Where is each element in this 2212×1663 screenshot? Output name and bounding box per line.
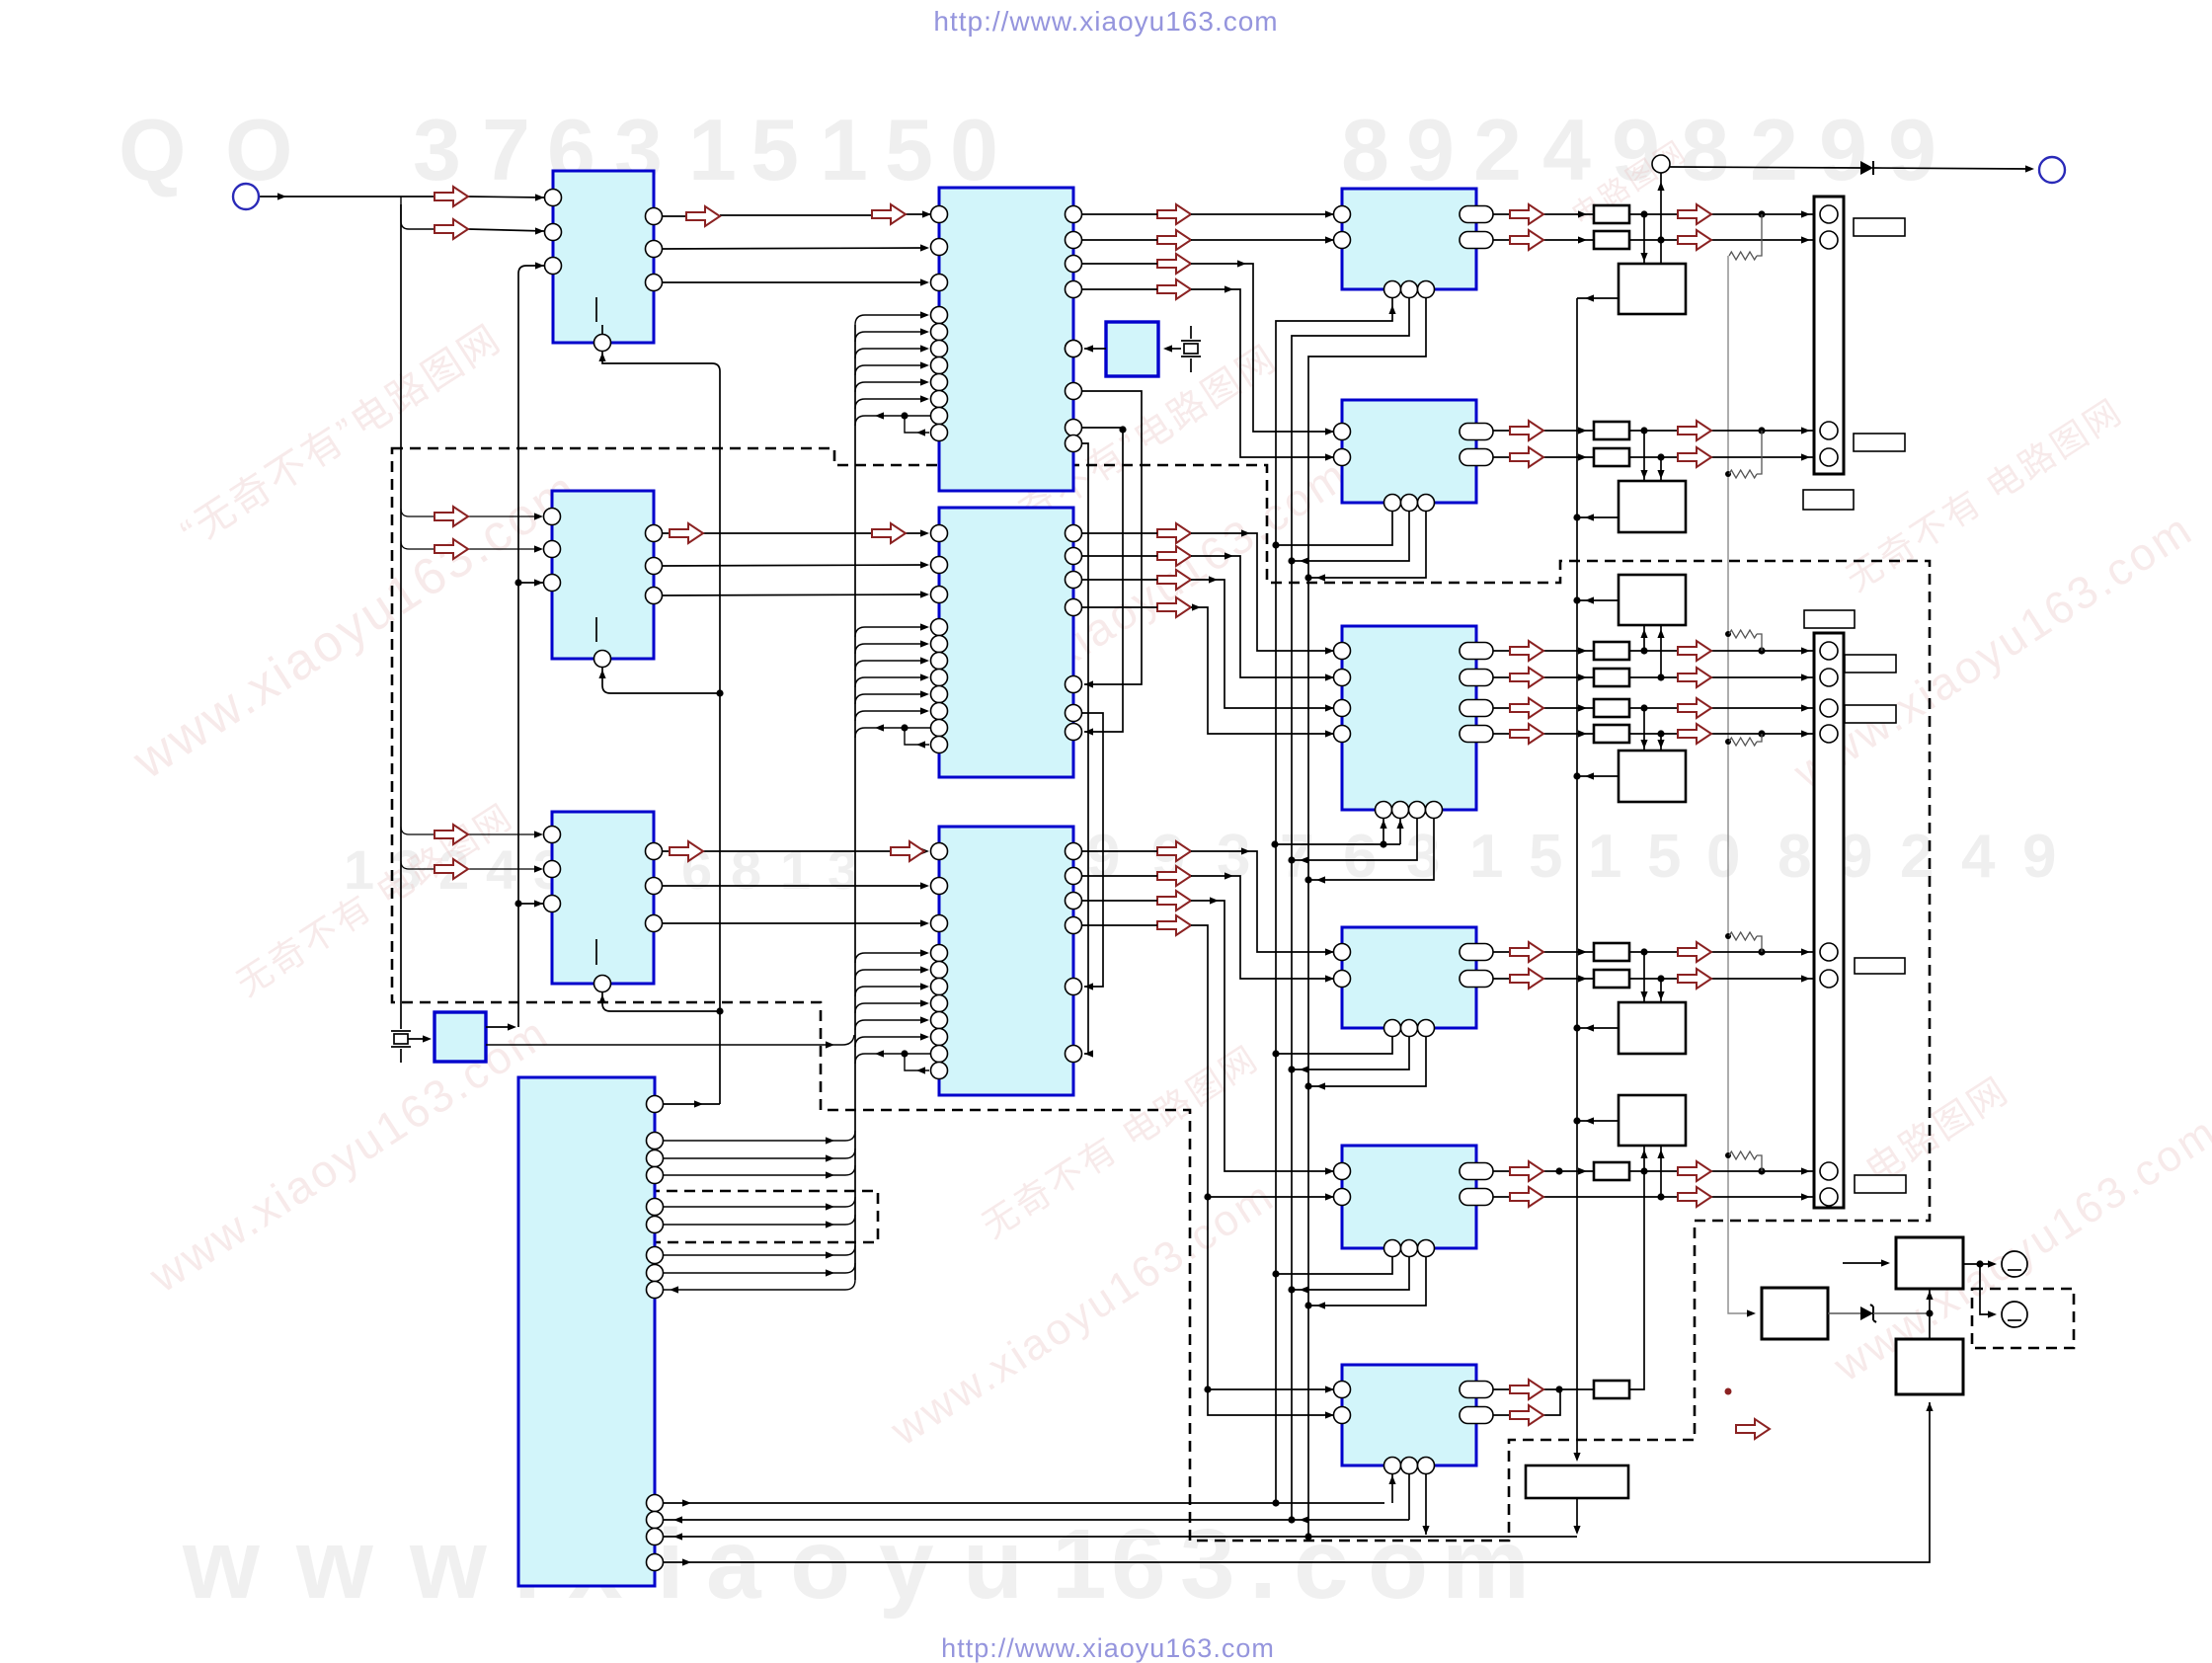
B2 bus pin y737 (931, 720, 948, 737)
wire bus taps B3 group (855, 953, 927, 963)
B2 right pin y587 (1066, 572, 1082, 589)
svg-text:9: 9 (2022, 823, 2056, 891)
wire C6 bottom pin3 drop (1425, 1473, 1427, 1535)
IC U25 output C6 (1342, 1365, 1476, 1465)
wire C2 bottom pin drop (1308, 511, 1426, 578)
wire G2 row1 (1493, 430, 1815, 432)
C3 bottom pin x1401 (1376, 802, 1392, 819)
arrow A2 out (670, 523, 703, 543)
label box above J2 (1804, 610, 1855, 628)
pullup resistor G5 (1729, 1151, 1757, 1159)
wire node up to REG2 (1929, 1289, 1931, 1313)
svg-text:o: o (1368, 1509, 1428, 1620)
wire collector V5 (1276, 297, 1392, 1503)
wire G1 row1 (1493, 213, 1815, 215)
arrow B2 row3 (1157, 570, 1191, 590)
wire gray pullup bus x1750 (1728, 256, 1754, 1313)
svg-text:7: 7 (482, 101, 530, 198)
wire row B1-C1 1 (1082, 213, 1334, 215)
wire A2 row2 to pin (468, 548, 536, 550)
C2 bottom pin x1444 (1418, 495, 1435, 512)
svg-text:5: 5 (750, 101, 799, 198)
B2 right pin y563 (1066, 548, 1082, 565)
wire G4 row1 (1493, 951, 1815, 953)
wire G3 row2 (1493, 676, 1815, 678)
arrow G1 row1 b (1678, 204, 1711, 224)
A4 lower right pin y1556 (647, 1529, 664, 1545)
C5 bottom pin x1444 (1418, 1240, 1435, 1257)
wire G2 zigzag riser (1757, 431, 1762, 474)
IC U5 driver B2 (939, 508, 1073, 777)
arrow B2 row1 (1157, 523, 1191, 543)
wire stub A3 row2 (401, 861, 434, 869)
svg-text:2: 2 (1750, 101, 1798, 198)
wire B2 row8 jog (905, 728, 929, 745)
IC U23 output C4 (1342, 927, 1476, 1028)
top node circle (1652, 155, 1670, 173)
svg-text:5: 5 (1647, 823, 1681, 891)
connector J1 pin y243 (1820, 231, 1838, 249)
IC U2 decoder A2 (552, 491, 654, 659)
B2 bus pin y703 (931, 686, 948, 703)
arrow A1 out (686, 206, 720, 226)
wire B2 row2 staircase to C3 pin2 (1082, 556, 1334, 677)
resistor G6a (1594, 1381, 1629, 1398)
pin1 marker U3 (595, 939, 597, 965)
svg-text:5: 5 (885, 101, 933, 198)
A1 right pin y252 (646, 241, 663, 258)
connector bar J1 (1814, 197, 1844, 474)
wire osc2 out2 long (486, 1035, 854, 1045)
B3 bus pin y1016 (931, 995, 948, 1012)
svg-text:3: 3 (413, 101, 461, 198)
A1 right pin y219 (646, 208, 663, 225)
arrow G2 row2 a (1510, 447, 1543, 467)
wire C4 bottom pin drop (1308, 1036, 1426, 1086)
C1 output pill y243 (1460, 232, 1493, 249)
B1 right pin y353 (1066, 341, 1082, 357)
svg-text:2: 2 (1473, 101, 1522, 198)
B2 bus pin y686 (931, 670, 948, 686)
wire zener to node (1873, 1312, 1930, 1314)
svg-text:3: 3 (828, 838, 858, 901)
A2 right pin y573 (646, 558, 663, 575)
wire row A1-B1 2 (663, 248, 927, 249)
svg-text:0: 0 (950, 101, 998, 198)
wire C6 bottom pin2 drop (1408, 1473, 1410, 1520)
wire B3 row2 staircase to C4 pin2 (1082, 876, 1334, 979)
arrow G1 row2 b (1678, 230, 1711, 250)
svg-text:8: 8 (731, 838, 761, 901)
svg-text:u: u (963, 1509, 1023, 1620)
wire G4 CB risers (1644, 952, 1661, 1002)
label box below J1 (1803, 490, 1854, 510)
wire into REG2 left (1843, 1262, 1888, 1264)
wire A1 pin2 arrow to pin (468, 229, 544, 231)
control box CB1 (1619, 264, 1686, 314)
B1 right pin y396 (1066, 383, 1082, 400)
wire C2 bottom pin drop (1276, 511, 1392, 545)
wire C5 bottom pin drop (1308, 1256, 1426, 1306)
svg-text:1: 1 (820, 101, 868, 198)
wire B1 pin396 to B2 pin693 (1082, 391, 1142, 684)
C2 left pin y463 (1334, 449, 1351, 466)
control box CB3a (1619, 575, 1686, 625)
svg-text:3: 3 (1217, 823, 1250, 891)
arrow G3 row1 a (1510, 641, 1543, 661)
wire B2 row4 staircase to C3 pin4 (1082, 607, 1334, 734)
C6 output pill y1407 (1460, 1382, 1493, 1398)
pullup resistor G1 (1729, 252, 1757, 260)
wire C2 bottom pin drop (1292, 511, 1409, 561)
svg-text:http://www.xiaoyu163.com: http://www.xiaoyu163.com (941, 1633, 1275, 1663)
connector J2 pin y964 (1820, 943, 1838, 961)
wire CB left link (1577, 1120, 1619, 1122)
wire G4 zigzag riser (1757, 936, 1762, 952)
wire reset bus x729 (602, 351, 720, 1104)
B3 bus pin y1067 (931, 1046, 948, 1063)
svg-text:4: 4 (1542, 101, 1591, 198)
B3 bus pin y982 (931, 962, 948, 979)
wire C3 bottom pins 1-2 feed (1275, 818, 1400, 844)
wire G1 CB risers (1644, 173, 1661, 264)
A2 left pin y523 (544, 509, 561, 525)
wire stub A3 row1 (401, 827, 434, 834)
svg-text:3: 3 (1180, 1509, 1235, 1620)
crystal X1 (1190, 326, 1192, 339)
wire CB left link (1577, 775, 1619, 777)
B1 right pin y267 (1066, 256, 1082, 273)
A3 left pin y880 (544, 861, 561, 878)
A1 left pin y200 (545, 190, 562, 206)
wire CB1 left (1577, 297, 1619, 299)
B1 right pin y433 (1066, 420, 1082, 436)
wire A4 row 1582 to power (664, 1402, 1930, 1562)
resistor G3a (1594, 642, 1629, 660)
wire C3 bottom pin4 drop (1308, 818, 1434, 880)
wire clock tap A3 pin3 (518, 903, 543, 905)
wire B2 pin722 to B3 pin999 (1082, 713, 1103, 987)
IC U1 decoder A1 (553, 171, 654, 343)
wire G3 CB3b drops (1644, 708, 1661, 751)
svg-text:9: 9 (1888, 101, 1936, 198)
svg-text:.: . (1249, 1509, 1277, 1620)
arrow A3 in row1 (434, 825, 468, 844)
wire row A3-B3 2 (663, 885, 927, 887)
C4 output pill y991 (1460, 971, 1493, 988)
wire row A2-B2 3 (663, 594, 927, 595)
resistor G5a (1594, 1162, 1629, 1180)
svg-text:Q: Q (118, 101, 186, 198)
wire C5 bottom pin drop (1276, 1256, 1392, 1274)
connector J1 pin y436 (1820, 422, 1838, 439)
wire G3b zigzag riser (1757, 734, 1762, 742)
B2 bus pin y720 (931, 703, 948, 720)
arrow G5 row2 b (1678, 1187, 1711, 1207)
arrow G2 row2 b (1678, 447, 1711, 467)
svg-text:0: 0 (1706, 823, 1740, 891)
B3 right pin y887 (1066, 868, 1082, 885)
B2 left pin y540 (931, 525, 948, 542)
B2 bus pin y652 (931, 636, 948, 653)
wire row A1-B1 1 (663, 214, 931, 216)
A1 left pin y235 (545, 224, 562, 241)
wire G5 row2 (1493, 1196, 1815, 1198)
wire osc2 out1 to clock bus (486, 1026, 511, 1028)
C2 output pill y437 (1460, 424, 1493, 440)
svg-text:6: 6 (1111, 1509, 1166, 1620)
svg-text:8: 8 (1777, 823, 1811, 891)
pullup resistor G3a (1729, 630, 1757, 638)
C2 bottom pin x1427 (1401, 495, 1418, 512)
IC U6 driver B3 (939, 827, 1073, 1095)
wire G3 row4 (1493, 733, 1815, 735)
B1 bus pin y387 (931, 374, 948, 391)
B2 bus pin y635 (931, 619, 948, 636)
A4 right pin y1173 (647, 1150, 664, 1167)
B3 right pin y862 (1066, 843, 1082, 860)
B1 left pin y250 (931, 239, 948, 256)
C4 left pin y964 (1334, 944, 1351, 961)
wire row B1 293 to C2 pin2 (1082, 289, 1334, 457)
IC U12 oscillator module osc1 (1106, 322, 1158, 376)
arrow G3 row4 a (1510, 724, 1543, 744)
resistor G4b (1594, 970, 1629, 988)
C5 output pill y1212 (1460, 1189, 1493, 1206)
wire REG2 out (1963, 1263, 1995, 1265)
connector J1 pin y463 (1820, 448, 1838, 466)
C6 left pin y1433 (1334, 1407, 1351, 1424)
svg-text:5: 5 (1529, 823, 1562, 891)
wire B2 row3 staircase to C3 pin3 (1082, 580, 1334, 708)
IC U10 MCU A4 (518, 1077, 655, 1586)
C6 bottom pin x1410 (1384, 1458, 1401, 1474)
A4 right pin y1306 (647, 1282, 664, 1299)
arrow G4 row2 b (1678, 969, 1711, 989)
arrow G5 row2 a (1510, 1187, 1543, 1207)
resistor G3d (1594, 725, 1629, 743)
svg-text:1: 1 (1588, 823, 1621, 891)
arrow G3 row2 a (1510, 668, 1543, 687)
wire input branch to A1 pin2 (401, 197, 434, 229)
connector J2 pin y991 (1820, 970, 1838, 988)
power box REG3 (1896, 1339, 1963, 1394)
wire stub A2 row1 (401, 509, 434, 516)
A2 right pin y603 (646, 588, 663, 604)
svg-text:9: 9 (1406, 101, 1455, 198)
A1 right pin y286 (646, 275, 663, 291)
C5 left pin y1186 (1334, 1163, 1351, 1180)
A1 bottom pin (594, 335, 611, 352)
arrow G4 row1 b (1678, 942, 1711, 962)
A3 right pin y862 (646, 843, 663, 860)
label box G5 (1855, 1175, 1906, 1193)
svg-text:y: y (879, 1509, 934, 1620)
C2 bottom pin x1410 (1384, 495, 1401, 512)
delay box (1526, 1465, 1628, 1498)
wire bus tap B2 row7 with junction (855, 728, 935, 738)
wire C5 bottom pin drop (1292, 1256, 1409, 1290)
wire G1 zigzag riser (1757, 214, 1762, 256)
C3 left pin y717 (1334, 700, 1351, 717)
wire C6 bottom pin1 riser (1391, 1473, 1393, 1503)
svg-text:1: 1 (1469, 823, 1503, 891)
B3 right pin y912 (1066, 893, 1082, 910)
zener diode D2 (1860, 1307, 1873, 1320)
pin1 marker U1 (595, 297, 597, 322)
B3 left pin y862 (931, 843, 948, 860)
wire G5 zigzag riser (1757, 1155, 1762, 1171)
IC U24 output C5 (1342, 1146, 1476, 1248)
A2 bottom pin (594, 651, 611, 668)
B1 osc pin (1066, 341, 1082, 357)
wire data bus vertical x866 (854, 325, 856, 1280)
wire bus taps B1 group (855, 315, 927, 325)
B1 bus pin y353 (931, 341, 948, 357)
A3 left pin y915 (544, 896, 561, 912)
B3 left pin y897 (931, 878, 948, 895)
C3 left pin y743 (1334, 726, 1351, 743)
wire A3 row1 to pin (468, 833, 536, 835)
A1 left pin y269 (545, 258, 562, 275)
arrow G5 row1 a (1510, 1161, 1543, 1181)
C3 output pill y743 (1460, 726, 1493, 743)
B3 right pin y999 (1066, 979, 1082, 995)
B2 right pin y615 (1066, 599, 1082, 616)
B3 bus pin y1033 (931, 1012, 948, 1029)
arrow G4 row1 a (1510, 942, 1543, 962)
C5 left pin y1212 (1334, 1189, 1351, 1206)
connector J2 pin y686 (1820, 669, 1838, 686)
control box CB3b (1619, 751, 1686, 802)
wire input to A1 pin1 (259, 196, 434, 198)
power box REG1 (1762, 1288, 1828, 1339)
arrow G5 row1 b (1678, 1161, 1711, 1181)
wire A2 row1 to pin (468, 515, 536, 517)
wire G1 row2 (1493, 239, 1815, 241)
wire G3 row1 (1493, 650, 1815, 652)
wire A4 row 1522 (664, 1502, 1384, 1504)
B1 bus pin y370 (931, 357, 948, 374)
wire G6 row2 merge (1493, 1389, 1560, 1415)
crystal X2 (400, 1015, 402, 1029)
arrow A3 in row2 (434, 859, 468, 879)
output terminal circle (2039, 157, 2065, 183)
arrow B2 row4 (1157, 597, 1191, 617)
svg-text:O: O (225, 101, 292, 198)
wire C4 bottom pin drop (1292, 1036, 1409, 1069)
wire diode to output circle (1873, 168, 2031, 169)
B2 left pin y602 (931, 587, 948, 603)
IC U22 output C3 (1342, 626, 1476, 810)
wire A4 pin1 to reset bus (664, 1103, 720, 1105)
B1 left pin y286 (931, 275, 948, 291)
wire B3 row8 jog (905, 1054, 929, 1070)
wire branch to battery2 (1980, 1264, 1995, 1314)
wire row A3-B3 3 (663, 922, 927, 924)
wire collector V7 (1308, 297, 1426, 1537)
wire bus tap B1 row7 with junction (855, 416, 935, 426)
arrow B1 row1 (1157, 204, 1191, 224)
wire B3 row3 staircase to C5 pin1 (1082, 901, 1334, 1171)
svg-text:w: w (295, 1509, 373, 1620)
arrow G6 row1 a (1510, 1380, 1543, 1399)
wire C3 bottom pin3 drop (1292, 818, 1417, 860)
connector J2 pin y1186 (1820, 1162, 1838, 1180)
C4 output pill y964 (1460, 944, 1493, 961)
arrow B3 in (891, 841, 924, 861)
wire B3 row4 staircase to C5 C6 (1082, 925, 1334, 1415)
arrow G6 row2 a (1510, 1405, 1543, 1425)
wire G6 row1 (1493, 1171, 1644, 1389)
arrow B3 row2 (1157, 866, 1191, 886)
C1 output pill y217 (1460, 206, 1493, 223)
label box G3 r2 (1845, 705, 1896, 723)
wire G3 CB3a drops (1644, 625, 1661, 677)
wire clock bus x525 (518, 266, 544, 1027)
B3 bus pin y965 (931, 945, 948, 962)
C3 bottom pin x1418 (1392, 802, 1409, 819)
B1 right pin y449 (1066, 436, 1082, 452)
svg-text:w: w (182, 1509, 260, 1620)
wire A4 row 1556 (664, 1536, 1577, 1538)
A4 right pin y1190 (647, 1167, 664, 1184)
arrow B3 row1 (1157, 841, 1191, 861)
arrow B3 row3 (1157, 891, 1191, 911)
wire CB left link (1577, 1027, 1619, 1029)
isolated red arrow (1736, 1419, 1770, 1439)
B3 right pin y1067 (1066, 1046, 1082, 1063)
wire A1 bottom pin riser (601, 325, 603, 334)
resistor G1b (1594, 231, 1629, 249)
C5 output pill y1186 (1460, 1163, 1493, 1180)
arrow G3 row1 b (1678, 641, 1711, 661)
arrow B2 row2 (1157, 546, 1191, 566)
wire node down to REG3 (1929, 1313, 1931, 1339)
connector J2 pin y717 (1820, 699, 1838, 717)
arrow G1 row2 a (1510, 230, 1543, 250)
A3 right pin y935 (646, 915, 663, 932)
battery terminal circle 2 (2002, 1302, 2027, 1327)
wire A2 bottom pin to reset bus (602, 668, 720, 693)
wire C4 bottom pin drop (1276, 1036, 1392, 1054)
B2 right pin y741 (1066, 724, 1082, 741)
A2 left pin y556 (544, 541, 561, 558)
power box REG2 (1896, 1237, 1963, 1289)
C4 bottom pin x1427 (1401, 1020, 1418, 1037)
control box CB2 (1619, 481, 1686, 532)
pin1 marker U2 (595, 617, 597, 642)
B1 left pin y217 (931, 206, 948, 223)
wire crystal X1 to osc1 (1165, 348, 1181, 350)
wire A1 pin1 arrow to pin (468, 197, 544, 198)
wire row B1 267 to C2 pin1 (1082, 264, 1334, 432)
wire G3 row3 (1493, 707, 1815, 709)
arrow A3 out (670, 841, 703, 861)
wire A4 row 1539 (664, 1519, 1409, 1521)
svg-text:http://www.xiaoyu163.com: http://www.xiaoyu163.com (933, 6, 1278, 37)
connector bar J2 (1814, 633, 1844, 1208)
wire G5 row1 (1493, 1170, 1815, 1172)
svg-text:8: 8 (1681, 101, 1729, 198)
IC U3 decoder A3 (552, 812, 654, 984)
C3 bottom pin x1452 (1426, 802, 1443, 819)
wire row A1-B1 3 (663, 281, 927, 283)
wire G2 CB risers (1644, 431, 1661, 481)
arrow A2 in row1 (434, 507, 468, 526)
arrow G3 row2 b (1678, 668, 1711, 687)
arrow G2 row1 a (1510, 421, 1543, 440)
